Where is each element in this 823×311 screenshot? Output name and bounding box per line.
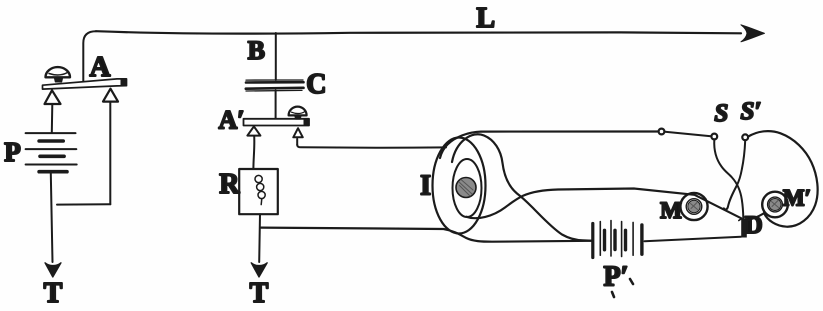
magnet M' core: [769, 199, 781, 211]
contact S' spring: [724, 141, 745, 210]
wire ring to contact S: [665, 132, 711, 137]
relay R coil: [255, 175, 265, 204]
wire battery P' to D: [645, 237, 742, 241]
node B wire: [275, 33, 277, 80]
contact S ring: [711, 134, 717, 140]
svg-text:B: B: [248, 36, 265, 65]
wire horizontal to earth lead: [57, 203, 110, 205]
key A lever: [43, 79, 127, 89]
svg-text:P: P: [4, 137, 21, 167]
arrowhead line L: [741, 25, 765, 42]
battery P: [26, 133, 77, 172]
magnet M' ring: [768, 197, 783, 212]
magnet M ring: [686, 199, 702, 215]
contact S' ring: [742, 134, 748, 140]
induction coil I inner turn: [453, 159, 482, 217]
key A' knob: [289, 107, 307, 116]
wire battery to earth: [51, 174, 53, 263]
induction coil second turn to battery P': [452, 134, 592, 240]
magnet M core: [688, 200, 700, 212]
svg-text:P′: P′: [604, 262, 629, 293]
svg-text:T: T: [44, 278, 63, 309]
wire coil middle to M and D: [467, 189, 742, 219]
wire contact to battery P: [51, 104, 54, 132]
contact post D: [741, 219, 747, 238]
induction coil core: [456, 178, 476, 198]
wire A' right contact down: [296, 139, 298, 145]
wire relay junction to coil (lower): [261, 228, 591, 242]
svg-text:A′: A′: [218, 106, 244, 135]
battery P': [593, 221, 642, 258]
svg-text:S′: S′: [741, 98, 762, 125]
wire M' to D: [747, 214, 764, 221]
wire right contact down: [109, 102, 111, 204]
svg-text:A: A: [90, 51, 111, 83]
svg-text:C: C: [306, 69, 326, 100]
induction coil I outer turn: [433, 138, 486, 234]
contact (right) of key A': [293, 128, 303, 137]
svg-text:I: I: [420, 171, 431, 202]
contact (right) of key A: [103, 89, 118, 102]
contact (left) of key A': [247, 126, 260, 135]
relay R box: [239, 169, 278, 214]
contact (left) of key A: [45, 90, 61, 104]
svg-text:S: S: [714, 100, 728, 127]
svg-text:L: L: [476, 3, 495, 34]
contact S spring: [714, 140, 743, 219]
svg-text:R: R: [219, 169, 240, 200]
magnet M outer: [680, 193, 707, 220]
terminal ring on top line: [659, 129, 665, 135]
wire A' to induction coil (upper): [297, 145, 446, 148]
earth arrow (middle): [251, 263, 267, 277]
wire relay to earth: [258, 214, 261, 262]
wire A' left contact to relay R: [252, 136, 255, 169]
key A knob: [46, 67, 71, 77]
key A' lever: [244, 119, 310, 126]
svg-text:T: T: [250, 278, 269, 309]
wire capacitor to key A': [275, 91, 277, 119]
svg-text:M: M: [660, 198, 682, 223]
capacitor C top plate: [246, 79, 303, 81]
earth arrow (left): [45, 263, 61, 277]
wire S' loop around M': [748, 131, 817, 227]
wire coil top sweep to contact line: [440, 132, 658, 159]
capacitor C bottom plate: [246, 87, 304, 90]
wire line L: [96, 31, 741, 33]
wire riser from key A to line L: [83, 31, 96, 81]
svg-text:M′: M′: [783, 186, 811, 211]
magnet M' outer: [762, 192, 788, 218]
